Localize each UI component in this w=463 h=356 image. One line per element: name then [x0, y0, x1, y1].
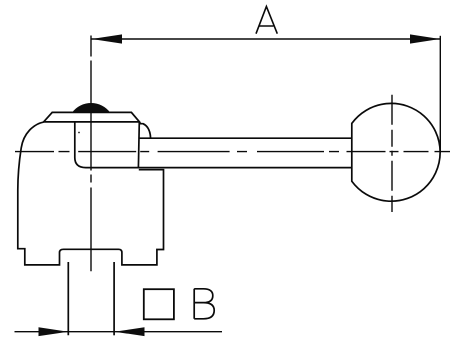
arrowhead B left [39, 327, 69, 336]
body outline (serrated base) [18, 122, 164, 265]
extension line right of dim A [439, 36, 441, 152]
horizontal centerline of arm [15, 151, 450, 153]
threaded stud left edge (also extension for dim B) [67, 262, 69, 335]
filled dome on cap nut [72, 103, 110, 112]
stray speck on head [78, 132, 80, 134]
label A [256, 7, 277, 34]
label B [194, 289, 214, 319]
centerline head vertical (also left extension line of dim A) [90, 36, 92, 272]
ball knob with flat [352, 103, 440, 201]
dimension line A [91, 38, 440, 40]
square symbol for B [144, 289, 174, 319]
head right shoulder arc into bar [140, 124, 151, 139]
ball vertical centerline [391, 95, 393, 212]
dimension line B [15, 331, 223, 333]
arrowhead A right [410, 34, 440, 43]
threaded stud right edge (also extension for dim B) [113, 262, 115, 335]
arrowhead B right [114, 327, 144, 336]
cap nut (chamfered) [44, 112, 140, 122]
bar top edge [140, 137, 352, 139]
head inner left edge and bar bottom [75, 122, 352, 168]
arrowhead A left [92, 34, 123, 43]
head right edge [137, 122, 140, 168]
